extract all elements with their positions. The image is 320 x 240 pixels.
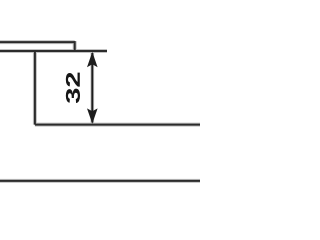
step bottom surface [35,124,200,126]
base line [0,180,200,182]
plate top edge [0,41,75,43]
dimension arrowhead down [87,108,98,123]
plate bottom edge extended [0,50,107,52]
halo soft edges for drawing lines [0,41,200,181]
dimension text 32 [66,73,80,103]
dimension arrowhead up [87,52,98,67]
dimension line 32 [91,53,93,123]
step vertical wall [34,51,36,125]
plate right edge [74,41,76,51]
